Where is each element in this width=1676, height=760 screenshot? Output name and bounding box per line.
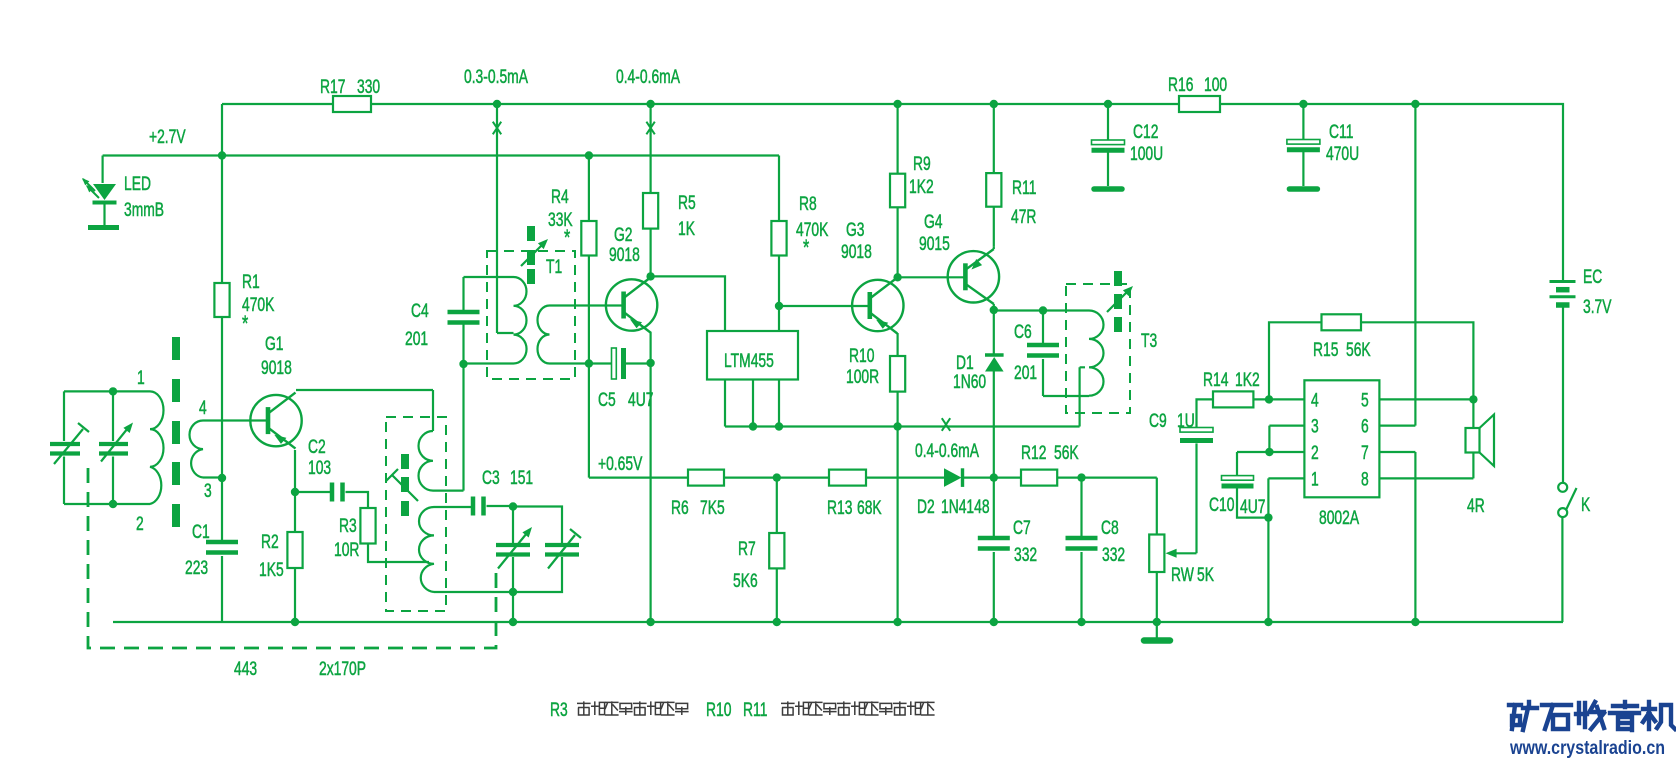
measure point X2 (646, 122, 654, 135)
svg-text:332: 332 (1014, 544, 1037, 566)
svg-text:R5: R5 (678, 192, 696, 214)
svg-text:R8: R8 (799, 193, 817, 215)
wire trimmer CD branch (513, 507, 562, 593)
svg-text:R14: R14 (1203, 369, 1228, 391)
diode D2 1N4148 (944, 468, 962, 487)
svg-text:1N4148: 1N4148 (941, 496, 990, 518)
resistor R6 (688, 470, 724, 486)
wire +0.65V detector line (589, 477, 944, 479)
variable capacitor CB (tuning gang a) (99, 444, 128, 454)
svg-text:T1: T1 (546, 256, 562, 278)
wire to C5 (589, 362, 611, 364)
wire pin6 to +V (1379, 104, 1415, 426)
wire R9 branch x=897.6 (896, 104, 898, 277)
svg-text:47R: 47R (1011, 206, 1036, 228)
svg-text:R12: R12 (1021, 442, 1046, 464)
wire C6 top (1042, 311, 1044, 346)
svg-text:G2: G2 (614, 224, 633, 246)
svg-text:330: 330 (357, 76, 380, 98)
potentiometer RW 5K (1149, 535, 1164, 573)
wire C9 top to R14 (1197, 399, 1214, 427)
resistor R8 (771, 221, 786, 256)
dashed gang coupling 443 2x170P (88, 468, 496, 648)
wire R14 to pin4 (1253, 398, 1304, 400)
capacitor C9 1U (1180, 428, 1213, 433)
wire C7 to bus (993, 552, 995, 622)
resistor R1 (214, 283, 229, 317)
switch K (1558, 483, 1567, 492)
node C4/T1/T2 junction (459, 360, 467, 368)
wire AGC line y=426.5 (725, 425, 1080, 427)
svg-text:7K5: 7K5 (700, 497, 725, 519)
wire T2 to C3 (434, 506, 472, 508)
resistor R4 (581, 221, 596, 256)
svg-text:www.crystalradio.cn: www.crystalradio.cn (1509, 737, 1665, 759)
resistor R13 (829, 470, 866, 486)
wire pin2 to C10 (1237, 452, 1304, 476)
wire G1 collector to T2 (296, 389, 433, 391)
wire R5 branch x=650.6 (649, 104, 651, 276)
svg-text:R10: R10 (849, 345, 874, 367)
inductor T3 winding (1089, 311, 1104, 396)
node pin3 junction (218, 474, 226, 482)
node C3/varcap (509, 502, 517, 510)
svg-text:C11: C11 (1329, 121, 1353, 143)
wire G1 emitter down (294, 450, 296, 492)
resistor R9 (890, 174, 905, 208)
wire G4 collector stub (993, 304, 995, 310)
wire down to +0.65V node (588, 364, 590, 478)
node pin1/C10 (1264, 513, 1272, 521)
svg-text:D2: D2 (917, 496, 935, 518)
svg-text:4: 4 (199, 397, 207, 419)
svg-text:4U7: 4U7 (1240, 496, 1265, 518)
wire x=897.6 down to bus (896, 427, 898, 623)
svg-text:C8: C8 (1101, 517, 1119, 539)
svg-text:R6: R6 (671, 497, 689, 519)
transformer T1 dashed box (487, 251, 575, 379)
ground symbol (1156, 622, 1158, 638)
svg-text:68K: 68K (857, 497, 882, 519)
node G2 collector (646, 272, 654, 280)
svg-text:0.4-0.6mA: 0.4-0.6mA (915, 440, 980, 462)
svg-text:T3: T3 (1141, 330, 1157, 352)
resistor R14 (1213, 391, 1253, 407)
svg-text:9015: 9015 (919, 233, 950, 255)
node pin5/speaker (1469, 395, 1477, 403)
svg-text:K: K (1581, 494, 1590, 516)
trimmer capacitor CD (545, 545, 579, 555)
wire battery to switch (1562, 308, 1564, 484)
inductor T1 primary (514, 277, 527, 363)
capacitor C3 151 (471, 497, 476, 516)
wire C8 to bus (1080, 552, 1082, 622)
wire R12 to RW (1057, 477, 1157, 479)
svg-text:C10: C10 (1209, 494, 1234, 516)
svg-text:1N60: 1N60 (953, 371, 986, 393)
wire bus to T1 center tap (497, 104, 514, 333)
speaker 4R (1466, 428, 1480, 453)
wire pin8 (1379, 477, 1473, 479)
wire LTM455 bottom pins (725, 380, 779, 427)
svg-text:3: 3 (204, 480, 212, 502)
wire T1 primary top (464, 276, 514, 278)
svg-text:1: 1 (1311, 468, 1319, 490)
svg-text:0.4-0.6mA: 0.4-0.6mA (616, 66, 681, 88)
svg-text:C1: C1 (192, 521, 210, 543)
wire T1 primary bottom (464, 362, 514, 364)
node R10/AGC (893, 422, 901, 430)
wire T2 bottom to bus (434, 592, 513, 622)
svg-text:+2.7V: +2.7V (149, 126, 186, 148)
svg-text:R4: R4 (551, 186, 569, 208)
node pin4/R15 (1265, 395, 1273, 403)
wire R11 branch x=993.8 (993, 104, 995, 246)
svg-text:470K: 470K (796, 219, 828, 241)
svg-text:470U: 470U (1326, 143, 1359, 165)
wire collector node to T3 (994, 309, 1089, 311)
resistor R5 (643, 193, 658, 229)
wire D2 to R12 (962, 477, 1022, 479)
wire C2 to R3 to T2 tap (346, 492, 430, 562)
wire T1 sec to G2 base (550, 304, 625, 306)
wire to C7 (993, 478, 995, 538)
svg-text:G4: G4 (924, 211, 943, 233)
resistor R15 (1322, 314, 1362, 330)
resistor R17 (333, 96, 371, 112)
node ground junction (1153, 618, 1161, 626)
wire G3 emitter to R10 (896, 333, 898, 427)
svg-text:*: * (564, 227, 571, 251)
wire pin3 to pin2 (1269, 426, 1304, 452)
svg-text:C2: C2 (308, 436, 326, 458)
inductor L1 secondary winding pins 4-3 (190, 421, 203, 478)
svg-text:6: 6 (1361, 415, 1369, 437)
svg-text:R10: R10 (706, 699, 731, 721)
T2 core + trimmer mark (401, 454, 409, 469)
svg-text:1U: 1U (1177, 410, 1195, 432)
svg-text:R9: R9 (913, 153, 931, 175)
node G4 collector (990, 306, 998, 314)
svg-text:100R: 100R (846, 366, 879, 388)
svg-text:LTM455: LTM455 (724, 350, 774, 372)
wire bottom ground bus y=622 (113, 621, 1563, 623)
capacitor C7 332 (978, 536, 1010, 541)
svg-text:201: 201 (405, 328, 428, 350)
wire C3 right (487, 505, 514, 507)
svg-text:C4: C4 (411, 300, 429, 322)
wire C4 top (462, 277, 464, 311)
wire varcap CB branch x=113 (112, 391, 114, 504)
svg-text:5K6: 5K6 (733, 570, 758, 592)
svg-text:2: 2 (136, 513, 144, 535)
svg-text:R7: R7 (738, 538, 756, 560)
svg-text:R1: R1 (242, 271, 260, 293)
wire top +V bus y=104 (222, 104, 1563, 280)
wire R15 loop (1269, 322, 1473, 399)
logo crystalradio (1509, 702, 1537, 730)
svg-text:3.7V: 3.7V (1583, 296, 1612, 318)
svg-text:443: 443 (234, 658, 257, 680)
svg-text:1K2: 1K2 (909, 176, 934, 198)
wire pin7 to ground (1379, 452, 1415, 622)
transistor G2 9018 (606, 277, 657, 333)
capacitor C6 201 (1027, 343, 1059, 348)
wire C12 branch (1107, 104, 1109, 140)
svg-text:0.3-0.5mA: 0.3-0.5mA (464, 66, 529, 88)
resistor R11 (986, 173, 1001, 207)
wire pin3 to node (203, 476, 222, 478)
resistor R7 (769, 533, 784, 568)
wire to G3 base (779, 305, 869, 307)
svg-text:100: 100 (1204, 74, 1227, 96)
svg-text:R13: R13 (827, 497, 852, 519)
svg-text:*: * (803, 237, 810, 261)
svg-text:C6: C6 (1014, 321, 1032, 343)
node G3 collector / G4 base (893, 273, 901, 281)
T1 core + trimmer mark (527, 226, 535, 241)
node C8 (1077, 473, 1085, 481)
svg-text:C7: C7 (1013, 517, 1031, 539)
measure point X3 (942, 418, 950, 431)
svg-text:C9: C9 (1149, 410, 1167, 432)
svg-text:9018: 9018 (261, 357, 292, 379)
wire speaker (1472, 399, 1474, 478)
svg-text:2: 2 (1311, 442, 1319, 464)
resistor R3 (360, 508, 375, 544)
svg-text:R3: R3 (550, 699, 568, 721)
svg-text:R16: R16 (1168, 74, 1193, 96)
svg-text:56K: 56K (1346, 339, 1371, 361)
wire R2 branch (294, 492, 296, 622)
diode D1 1N60 (985, 353, 1004, 356)
resistor R10 (890, 356, 905, 392)
wire varcap CC branch (512, 507, 514, 593)
transformer T2 dashed box (386, 417, 446, 611)
svg-text:223: 223 (185, 557, 208, 579)
svg-text:4: 4 (1311, 389, 1319, 411)
svg-text:9018: 9018 (609, 244, 640, 266)
svg-text:1: 1 (137, 367, 145, 389)
svg-text:201: 201 (1014, 362, 1037, 384)
svg-text:10R: 10R (334, 539, 359, 561)
wire G2 emitter short (649, 333, 651, 364)
wire C11 branch (1302, 104, 1304, 140)
capacitor C8 332 (1066, 536, 1098, 541)
wire R4 branch x=588.9 (588, 156, 590, 364)
resistor R16 (1179, 96, 1220, 112)
svg-text:5: 5 (1361, 389, 1369, 411)
capacitor C1 223 (206, 540, 238, 545)
RW wiper arrow (1175, 552, 1197, 554)
svg-text:1K2: 1K2 (1235, 369, 1260, 391)
svg-text:R15: R15 (1313, 339, 1338, 361)
wire G4 emitter stub (993, 246, 995, 249)
svg-text:LED: LED (124, 173, 151, 195)
capacitor C4 201 (448, 310, 480, 315)
svg-text:C3: C3 (482, 467, 500, 489)
capacitor C12 100U (1092, 140, 1125, 145)
wire +2.7V rail y=155.5 (103, 154, 779, 156)
wire C11 stub (1302, 150, 1304, 186)
node C6 top (1039, 306, 1047, 314)
wire switch to bus (1561, 516, 1563, 622)
resistor R2 (287, 532, 302, 568)
wire R1/C1 branch x=222 (221, 104, 223, 622)
wire R8 branch x=779 (778, 156, 780, 332)
wire C4 bottom (462, 323, 464, 365)
wire RW branch (1156, 478, 1158, 622)
svg-text:103: 103 (308, 457, 331, 479)
inductor T1 secondary (538, 306, 550, 364)
svg-text:5K: 5K (1197, 564, 1214, 586)
svg-text:3: 3 (1311, 415, 1319, 437)
trimmer capacitor CA (50, 444, 80, 454)
svg-text:4R: 4R (1467, 495, 1485, 517)
svg-text:7: 7 (1361, 442, 1369, 464)
svg-text:8002A: 8002A (1319, 507, 1360, 529)
svg-text:*: * (242, 313, 249, 337)
wire C12 stub (1107, 151, 1109, 186)
wire to C2 (295, 491, 330, 493)
resistor R12 (1021, 470, 1057, 486)
svg-text:C5: C5 (598, 389, 616, 411)
node G2 emitter junction (646, 359, 654, 367)
node +2.7V junction x=222 (218, 151, 226, 159)
svg-text:+0.65V: +0.65V (598, 453, 643, 475)
transistor G1 9018 (250, 393, 301, 449)
wire T2 upper out to node (433, 364, 464, 491)
wire C6 bottom to T3 bottom (1043, 359, 1089, 396)
svg-text:R2: R2 (261, 531, 279, 553)
node D1/D2/C7 (990, 473, 998, 481)
svg-text:C12: C12 (1133, 121, 1158, 143)
LED D-LED 3mmB (93, 184, 116, 200)
svg-text:EC: EC (1583, 266, 1602, 288)
wire into T2 top (432, 390, 434, 431)
wire T3 tap to AGC (1080, 367, 1085, 426)
capacitor C10 4U7 (1222, 476, 1254, 481)
wire emitter node to ground (649, 363, 651, 622)
inductor T2 lower winding (419, 507, 434, 592)
svg-text:100U: 100U (1130, 143, 1163, 165)
wire T1 sec bottom (550, 362, 589, 364)
svg-text:R11: R11 (743, 699, 767, 721)
wire R7 branch (776, 478, 778, 622)
wire D1 to detector node (993, 372, 995, 478)
svg-text:RW: RW (1171, 564, 1194, 586)
variable capacitor CC (tuning gang b) (496, 545, 530, 555)
inductor T2 upper winding (419, 431, 433, 491)
node pin2/pin3 (1265, 448, 1273, 456)
svg-text:G3: G3 (846, 219, 865, 241)
svg-text:1K: 1K (678, 218, 695, 240)
wire LED anode (101, 156, 103, 184)
capacitor C11 470U (1287, 140, 1320, 145)
wire pin1/C10 to bus (1268, 478, 1304, 622)
wire to G4 base (898, 276, 965, 278)
ferrite core bar (172, 337, 180, 360)
svg-text:56K: 56K (1054, 442, 1079, 464)
wire C10 bottom (1237, 488, 1268, 517)
svg-text:3mmB: 3mmB (124, 199, 164, 221)
svg-text:R3: R3 (339, 515, 357, 537)
node G1 emitter junction (291, 488, 299, 496)
caption chinese 2 (控制中放增益防失真自激) (781, 701, 795, 715)
wire to C8 (1080, 478, 1082, 538)
IC U1 8002A (1304, 380, 1379, 497)
wire trimmer CA branch x=64 (63, 391, 65, 504)
transistor G3 9018 (852, 278, 903, 334)
filter U-LTM455 (707, 331, 798, 380)
wire antenna tank top/bottom (64, 391, 150, 504)
capacitor C2 103 (330, 483, 335, 502)
svg-text:1K5: 1K5 (259, 559, 284, 581)
transistor G4 9015 (PNP) (948, 249, 999, 304)
wire collector to LTM455 (651, 276, 725, 331)
node R7 (773, 473, 781, 481)
node R8/G3 base (775, 302, 783, 310)
wire pin4 to G1 base (203, 419, 268, 421)
svg-text:151: 151 (510, 467, 533, 489)
capacitor C5 4U7 (612, 348, 617, 379)
svg-text:9018: 9018 (841, 241, 872, 263)
transformer T3 dashed box (1066, 284, 1130, 413)
svg-text:8: 8 (1361, 468, 1369, 490)
node R4/C5/T1 (585, 359, 593, 367)
T3 core + trimmer mark (1114, 271, 1122, 286)
wire C5 to emitter node (626, 362, 651, 364)
measure point X1 (493, 122, 501, 135)
wire C9 bottom (1195, 443, 1197, 553)
svg-text:R11: R11 (1012, 177, 1036, 199)
svg-text:2x170P: 2x170P (319, 658, 366, 680)
caption chinese 1 (抑制平衡振荡强弱) (577, 701, 591, 715)
svg-text:R17: R17 (320, 76, 345, 98)
wire pin5 (1379, 398, 1473, 400)
battery EC 3.7V (1550, 280, 1576, 283)
wire to D1 (993, 310, 995, 354)
inductor L1 primary winding pins 1-2 (150, 391, 164, 504)
svg-text:G1: G1 (265, 333, 284, 355)
svg-text:332: 332 (1102, 544, 1125, 566)
